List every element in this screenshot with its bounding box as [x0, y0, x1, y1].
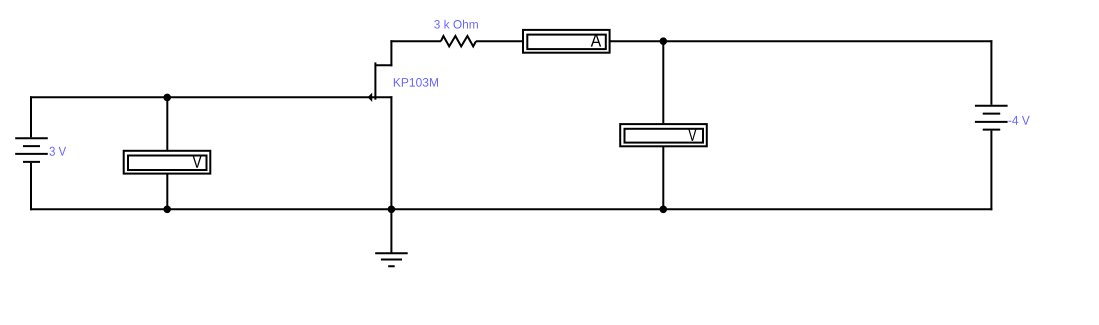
- ammeter A1 box: [523, 30, 610, 53]
- node VM1 bottom junction: [163, 206, 171, 214]
- label 3 V of battery V1: [50, 147, 67, 156]
- voltmeter U1 box: [124, 151, 211, 174]
- wire drain stub: [375, 64, 392, 66]
- wire right rail upper: [990, 40, 992, 105]
- ground bars: [375, 253, 408, 266]
- wire top rail left segment: [390, 40, 441, 42]
- label A of ammeter A1: [591, 34, 602, 46]
- node ground junction: [388, 206, 396, 214]
- wire left rail upper: [30, 96, 32, 137]
- wire bottom rail: [30, 208, 992, 210]
- wire right rail lower: [990, 131, 992, 211]
- wire top rail right segment (ammeter to right corner): [610, 40, 992, 42]
- label 3 k Ohm of resistor R1: [434, 20, 478, 29]
- wire gate line (battery V1 plus to transistor gate / source corner): [30, 96, 392, 98]
- ground stem: [390, 209, 392, 253]
- transistor Q1 channel bar: [374, 62, 376, 99]
- wire voltmeter U1 bottom stub: [166, 175, 168, 210]
- transistor Q1 gate arrow: [368, 93, 373, 102]
- label V of voltmeter U1: [192, 155, 201, 167]
- node VM2 bottom junction: [660, 206, 668, 214]
- label -4 V of battery V2: [1009, 116, 1030, 125]
- wire voltmeter U1 top stub: [166, 97, 168, 150]
- label V of voltmeter U2: [688, 129, 697, 141]
- battery V2 -4 V plates: [975, 106, 1008, 130]
- voltmeter U2 box: [620, 124, 707, 146]
- label KP103M of transistor Q1: [394, 78, 438, 87]
- battery V1 3 V plates: [15, 138, 48, 162]
- wire between resistor and ammeter: [476, 40, 522, 42]
- wire left rail lower: [30, 163, 32, 210]
- wire voltmeter U2 top stub: [662, 41, 664, 123]
- node gate/VM1 junction: [163, 94, 171, 102]
- wire drain riser: [390, 40, 392, 66]
- wire voltmeter U2 bottom stub: [662, 147, 664, 209]
- wire source drop: [390, 96, 392, 209]
- resistor R1 zigzag: [441, 36, 476, 46]
- node VM2 top junction: [660, 37, 668, 45]
